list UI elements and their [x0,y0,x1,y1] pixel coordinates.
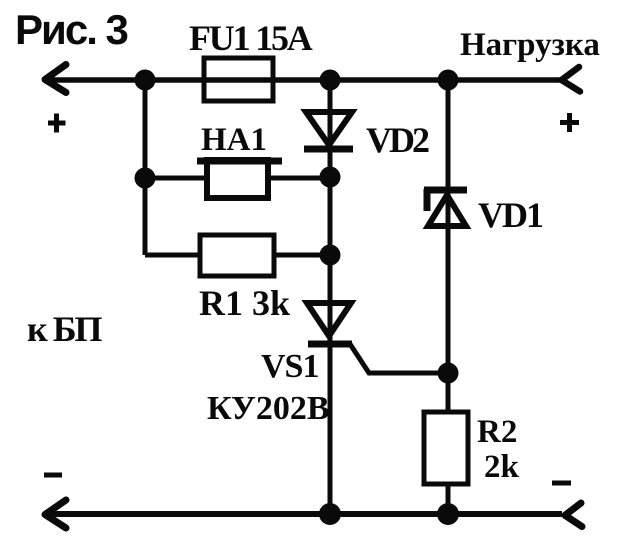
buzzer HA1 box [207,160,268,198]
diode VD2 [306,112,352,145]
resistor R2 [424,412,468,484]
resistor R1 [200,235,274,276]
node HA1 left junction [135,168,156,189]
svg-text:VS1: VS1 [261,348,318,385]
thyristor VS1 triangle [307,303,351,336]
svg-text:FU1 15A: FU1 15A [189,18,313,58]
wire R2 bottom lead [446,484,451,514]
top rail wire [50,77,562,83]
wire HA1 branch [145,176,330,181]
minus sign left [44,473,62,478]
connector arrow top right (open) [562,67,581,92]
fuse FU1 [204,58,273,101]
node HA1 right junction [320,167,341,188]
diode VD2 cathode bar [304,146,353,153]
svg-text:Рис. 3: Рис. 3 [15,6,128,53]
right vertical wire upper [446,79,451,412]
svg-text:НА1: НА1 [201,122,267,158]
plus sign right [560,113,579,132]
plus sign left [48,114,66,133]
node top right junction [438,70,459,91]
minus sign right [552,481,571,486]
left arrow bottom [45,500,66,528]
thyristor VS1 cathode bar [308,341,352,348]
svg-text:Нагрузка: Нагрузка [460,27,600,63]
bottom rail wire [50,511,562,517]
zener VD1 bent lead [424,189,431,211]
node gate junction [438,363,459,384]
node R1 right junction [320,245,341,266]
node top center junction [320,70,341,91]
svg-text:2k: 2k [484,449,520,485]
left branch vertical wire [143,79,148,255]
svg-text:VD2: VD2 [366,120,429,160]
svg-text:R2: R2 [477,414,517,450]
zener VD1 cathode bar [424,187,467,194]
svg-text:к БП: к БП [27,309,103,349]
node top-left junction [135,70,156,91]
node bottom center junction [319,503,341,525]
svg-text:КУ202В: КУ202В [207,390,330,427]
thyristor VS1 gate wire [350,344,448,373]
central vertical wire [328,79,333,514]
connector arrow bottom right (open) [565,503,582,527]
svg-text:VD1: VD1 [478,195,543,235]
wire R1 branch [145,253,330,258]
left arrow top (+ lead to power supply) [45,65,66,93]
zener VD1 triangle [428,195,466,226]
buzzer HA1 top plate [197,158,282,165]
svg-text:R1 3k: R1 3k [199,283,290,323]
node bottom right junction [437,503,459,525]
